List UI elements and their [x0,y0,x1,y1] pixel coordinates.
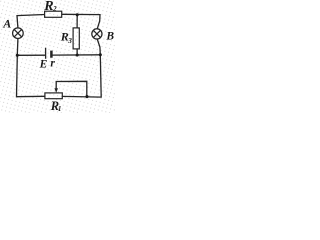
svg-text:2: 2 [52,5,57,13]
svg-text:B: B [105,30,114,42]
svg-text:E: E [39,58,48,70]
svg-text:1: 1 [58,105,62,113]
svg-text:r: r [50,58,55,70]
svg-text:R: R [43,0,53,14]
svg-text:3: 3 [67,36,72,45]
svg-text:A: A [2,16,11,30]
